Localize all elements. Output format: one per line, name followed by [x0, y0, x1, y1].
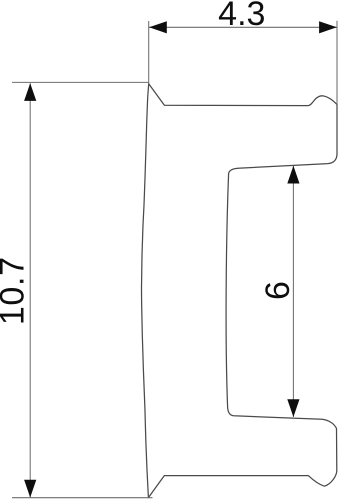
- svg-text:4.3: 4.3: [218, 0, 265, 33]
- svg-text:6: 6: [259, 281, 297, 300]
- svg-text:10.7: 10.7: [0, 256, 32, 325]
